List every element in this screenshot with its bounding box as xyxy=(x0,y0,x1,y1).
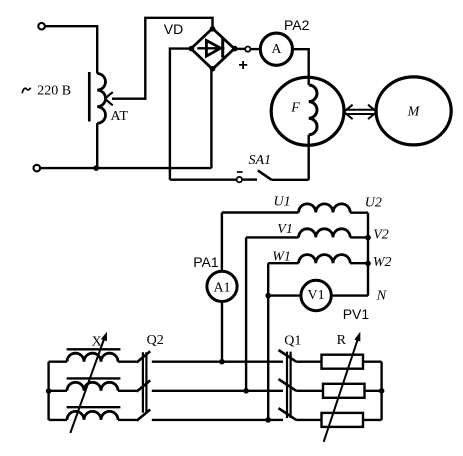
svg-text:VD: VD xyxy=(164,21,183,37)
wire bridge left corner xyxy=(170,49,191,180)
wire node to ammeter xyxy=(250,48,260,50)
junction R bus xyxy=(379,388,385,394)
wire bottom terminal to bridge xyxy=(40,167,211,169)
wire PA1 down xyxy=(221,302,223,362)
node plus output xyxy=(245,47,250,52)
svg-text:N: N xyxy=(376,289,387,304)
rectifier bridge VD xyxy=(191,28,234,69)
wire bridge right corner to node xyxy=(234,48,245,50)
core X phase 3 xyxy=(67,406,121,408)
core X phase 2 xyxy=(67,377,121,379)
svg-text:PA1: PA1 xyxy=(193,254,219,270)
switch Q1 link bars xyxy=(287,352,291,418)
bridge corner dot right xyxy=(232,46,238,52)
wire bridge bottom corner down xyxy=(210,69,212,168)
wire ammeter to F top xyxy=(293,49,309,85)
junction row1 U xyxy=(219,359,225,365)
wire F bottom xyxy=(308,135,310,180)
svg-text:X: X xyxy=(92,335,102,350)
wire Q1 to R row2 xyxy=(296,390,323,392)
wire V phase down xyxy=(245,237,247,390)
switch Q2 link bars xyxy=(143,352,147,412)
winding V1-V2 xyxy=(246,236,299,238)
switch SA1 blade xyxy=(258,170,272,179)
wire Q1 to R row3 xyxy=(296,419,321,421)
svg-text:PA2: PA2 xyxy=(284,17,310,33)
wire to voltmeter xyxy=(268,294,301,296)
svg-text:PV1: PV1 xyxy=(343,306,370,322)
svg-text:АТ: АТ xyxy=(111,109,129,124)
wire Q1 to R row1 xyxy=(296,361,321,363)
bridge corner dot top xyxy=(210,26,216,32)
motor M circle xyxy=(376,77,451,145)
svg-text:W2: W2 xyxy=(373,255,392,270)
wire row 3 xyxy=(152,419,283,421)
ammeter PA1 xyxy=(207,271,237,301)
winding W1-W2 xyxy=(268,262,298,264)
wire SA1 to F xyxy=(272,179,309,181)
terminal input bottom xyxy=(34,165,41,172)
svg-text:R: R xyxy=(337,333,347,348)
wire R row2 to bus xyxy=(365,390,382,392)
autotransformer AT core xyxy=(88,72,91,122)
bridge corner dot left xyxy=(189,46,195,52)
wire top terminal to AT xyxy=(45,25,97,27)
switch Q2 blade 3 xyxy=(137,410,151,421)
AT tap arrow xyxy=(112,97,145,99)
wire AT vertical lower xyxy=(96,123,98,168)
wire W phase down xyxy=(267,263,269,420)
svg-text:A1: A1 xyxy=(213,280,230,295)
junction X bus xyxy=(46,388,52,394)
junction voltmeter tap xyxy=(265,293,271,299)
resistor R phase 1 xyxy=(322,355,364,369)
wire R row1 to bus xyxy=(363,361,382,363)
wire X bus xyxy=(47,362,49,420)
svg-text:V1: V1 xyxy=(308,288,325,303)
X variable arrow xyxy=(70,339,104,433)
wire minus rail xyxy=(170,178,237,180)
node SA1 contact xyxy=(237,177,242,182)
switch Q1 blade 3 xyxy=(279,408,297,420)
svg-text:V1: V1 xyxy=(277,222,293,237)
R variable arrow xyxy=(324,340,358,442)
junction V2 xyxy=(365,235,371,241)
svg-text:W1: W1 xyxy=(272,250,291,265)
wire row 2 xyxy=(152,390,283,392)
label plus xyxy=(239,61,247,69)
winding U1-U2 xyxy=(222,211,299,213)
mechanical coupling xyxy=(344,110,377,114)
wire AT vertical upper xyxy=(96,25,98,74)
bridge corner dot bottom xyxy=(210,66,216,72)
svg-text:Q1: Q1 xyxy=(284,333,301,348)
wire R row3 to bus xyxy=(363,419,382,421)
svg-text:F: F xyxy=(290,101,300,116)
svg-text:220 В: 220 В xyxy=(37,83,71,98)
diode symbol xyxy=(197,47,224,49)
resistor R phase 2 xyxy=(323,384,365,398)
svg-text:M: M xyxy=(407,105,421,120)
switch Q1 blade 2 xyxy=(279,379,297,391)
svg-text:A: A xyxy=(271,42,282,57)
wire R bus xyxy=(380,362,382,420)
wire row 1 xyxy=(152,361,283,363)
voltmeter PV1 xyxy=(301,280,331,310)
autotransformer AT winding xyxy=(97,74,105,124)
ammeter PA2 xyxy=(260,33,292,65)
inductor X phase 1 xyxy=(49,361,67,363)
switch Q2 blade 1 xyxy=(137,351,151,362)
junction row3 W xyxy=(265,417,271,423)
wire tap to bridge top xyxy=(145,18,212,100)
switch Q1 blade 1 xyxy=(279,350,297,362)
svg-text:U2: U2 xyxy=(365,196,382,211)
exciter F circle xyxy=(271,77,344,145)
inductor X phase 2 xyxy=(49,390,67,392)
label minus xyxy=(237,171,243,173)
junction AT bottom xyxy=(93,165,99,171)
wire star bus xyxy=(367,213,369,296)
svg-text:U1: U1 xyxy=(274,195,291,210)
core X phase 1 xyxy=(67,348,121,350)
label 220 V xyxy=(22,88,31,93)
resistor R phase 3 xyxy=(322,413,364,427)
wire SA1 stub xyxy=(242,178,257,180)
switch Q2 blade 2 xyxy=(137,380,151,391)
terminal input top xyxy=(38,23,45,30)
junction W2 xyxy=(365,261,371,267)
junction row2 V xyxy=(243,388,249,394)
winding F xyxy=(309,85,317,135)
inductor X phase 3 xyxy=(49,419,67,421)
wire voltmeter to N xyxy=(331,294,368,296)
svg-text:V2: V2 xyxy=(373,228,389,243)
svg-text:Q2: Q2 xyxy=(147,333,164,348)
wire U phase down xyxy=(221,213,223,272)
svg-text:SA1: SA1 xyxy=(249,153,272,168)
